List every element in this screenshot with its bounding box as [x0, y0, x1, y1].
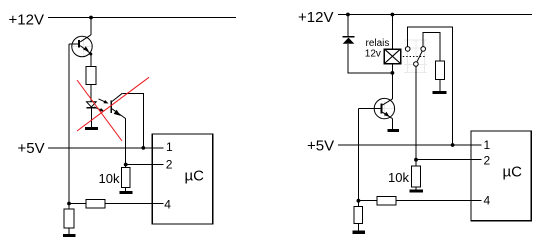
svg-text:µC: µC	[503, 164, 523, 181]
svg-text:10k: 10k	[99, 171, 120, 186]
svg-text:2: 2	[484, 153, 491, 167]
svg-text:4: 4	[484, 193, 491, 207]
svg-text:+12V: +12V	[9, 12, 44, 29]
svg-text:10k: 10k	[388, 170, 409, 185]
svg-text:12v: 12v	[365, 48, 381, 59]
svg-text:+5V: +5V	[18, 140, 45, 157]
svg-text:4: 4	[164, 197, 171, 211]
svg-text:+5V: +5V	[307, 138, 334, 155]
svg-text:+12V: +12V	[298, 9, 333, 26]
svg-text:µC: µC	[185, 168, 205, 185]
svg-text:1: 1	[484, 138, 491, 152]
svg-text:2: 2	[166, 158, 173, 172]
svg-text:1: 1	[166, 140, 173, 154]
